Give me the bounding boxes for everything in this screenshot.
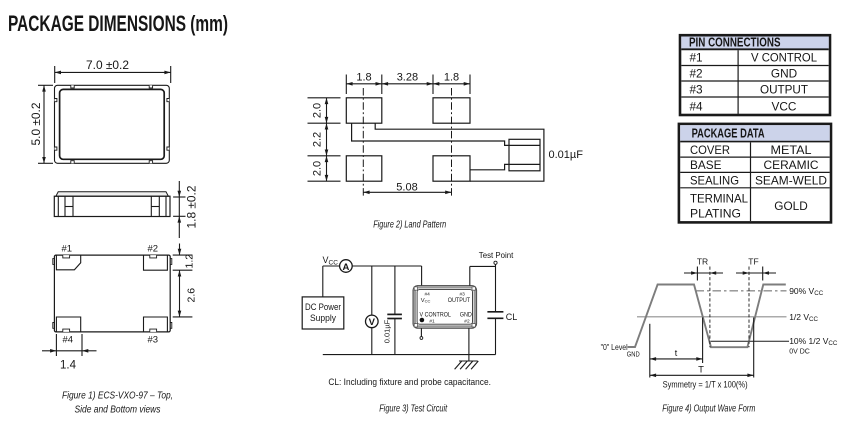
- svg-text:CL: CL: [506, 312, 518, 322]
- svg-text:2.2: 2.2: [312, 132, 324, 147]
- dim 7.0 line: [55, 71, 171, 73]
- side bump pad3: [170, 323, 172, 329]
- T right tick: [753, 318, 755, 378]
- bypass capacitor body: [509, 139, 540, 171]
- centerline left pads: [362, 88, 364, 197]
- svg-text:A: A: [342, 262, 349, 273]
- wire capacitor to bottom: [394, 319, 396, 355]
- package data header separator: [680, 141, 830, 143]
- svg-text:TF: TF: [748, 257, 758, 267]
- svg-text:BASE: BASE: [690, 158, 722, 172]
- left extension lines: [308, 97, 341, 99]
- pad #4: [56, 317, 80, 332]
- half Vcc reference line: [637, 316, 787, 318]
- wire junction to capacitor: [394, 266, 396, 314]
- svg-text:10% 1/2 VCC: 10% 1/2 VCC: [789, 336, 838, 347]
- TF dashed vertical: [748, 267, 750, 348]
- trace outer loop: [375, 123, 544, 181]
- TF tick solid: [762, 267, 764, 281]
- package data column divider: [750, 142, 752, 221]
- svg-text:5.0 ±0.2: 5.0 ±0.2: [31, 103, 43, 146]
- dim 5.0 extension tick top: [38, 84, 53, 86]
- svg-text:V CONTROL: V CONTROL: [751, 51, 817, 65]
- svg-text:GND: GND: [627, 352, 640, 359]
- DC power supply box: [302, 297, 344, 329]
- svg-text:METAL: METAL: [771, 143, 812, 157]
- svg-text:DC Power: DC Power: [305, 302, 341, 312]
- 90% Vcc dash-dot line: [696, 290, 787, 292]
- svg-text:GND: GND: [771, 66, 797, 80]
- wire CL to bottom: [495, 318, 497, 354]
- pin connections header separator: [681, 48, 828, 50]
- dim 5.0 line: [43, 85, 45, 163]
- side bump pad2: [170, 259, 172, 265]
- svg-text:Test Point: Test Point: [479, 250, 514, 260]
- trace inner to cap top: [352, 123, 509, 145]
- svg-text:Side and Bottom views: Side and Bottom views: [75, 404, 162, 416]
- side bump pad4: [53, 323, 55, 329]
- dim line top: [346, 83, 470, 85]
- package data header background: [680, 125, 830, 141]
- dim 1.4 line and arrows: [56, 350, 82, 352]
- output wire to test point: [470, 265, 496, 267]
- svg-text:#2: #2: [690, 66, 703, 80]
- svg-text:Figure 3) Test Circuit: Figure 3) Test Circuit: [379, 403, 448, 415]
- dim 1.4 tick right: [81, 334, 83, 356]
- svg-text:#2: #2: [464, 318, 470, 324]
- voltmeter V: [366, 315, 379, 328]
- dim 1.2 upper arrow: [179, 244, 181, 256]
- side view right terminal lines: [165, 196, 167, 216]
- svg-text:CL: Including fixture and prob: CL: Including fixture and probe capacita…: [328, 377, 491, 388]
- svg-text:V: V: [369, 317, 376, 328]
- 10% line: [711, 340, 789, 342]
- side bump pad1: [53, 259, 55, 265]
- ground symbol: [459, 360, 478, 362]
- svg-text:VCC: VCC: [772, 100, 797, 114]
- svg-text:7.0 ±0.2: 7.0 ±0.2: [86, 60, 129, 72]
- svg-text:#4: #4: [63, 335, 74, 346]
- svg-text:V CONTROL: V CONTROL: [420, 311, 452, 318]
- top edge castellation notch left: [71, 85, 74, 88]
- svg-text:VCC: VCC: [421, 298, 431, 304]
- wire Vcc to ammeter: [323, 265, 340, 267]
- svg-text:Supply: Supply: [310, 313, 336, 323]
- gnd pin wire down: [468, 328, 470, 361]
- svg-text:Figure 2) Land Pattern: Figure 2) Land Pattern: [373, 219, 446, 231]
- svg-text:SEAM-WELD: SEAM-WELD: [755, 174, 827, 188]
- svg-text:PACKAGE DIMENSIONS (mm): PACKAGE DIMENSIONS (mm): [8, 11, 228, 36]
- capacitor 0.01uF plates: [387, 313, 402, 315]
- svg-text:#2: #2: [148, 244, 159, 255]
- svg-text:TERMINAL: TERMINAL: [690, 192, 748, 206]
- package top view lid: [60, 89, 165, 159]
- svg-text:GND: GND: [460, 311, 473, 318]
- dim extension verticals top: [345, 75, 347, 95]
- dim 5.08 line: [363, 191, 451, 193]
- dim 7.0 extension line right: [170, 66, 172, 83]
- left edge notch upper: [55, 99, 57, 102]
- svg-text:PLATING: PLATING: [690, 207, 741, 221]
- svg-text:PIN CONNECTIONS: PIN CONNECTIONS: [689, 34, 781, 49]
- TR dashed vertical: [709, 267, 711, 348]
- svg-text:T: T: [698, 365, 704, 376]
- dim 1.8 tick top: [173, 196, 185, 198]
- svg-text:VCC: VCC: [323, 255, 339, 267]
- pin connections table outer: [680, 35, 830, 115]
- pin connections row lines: [681, 65, 828, 67]
- wire down to DC supply: [322, 266, 324, 297]
- svg-text:1.8: 1.8: [444, 72, 459, 84]
- svg-text:SEALING: SEALING: [690, 174, 739, 188]
- svg-text:1.8 ±0.2: 1.8 ±0.2: [187, 186, 199, 229]
- bottom view body: [54, 255, 170, 332]
- svg-text:#1: #1: [429, 318, 435, 324]
- svg-text:1.8: 1.8: [356, 72, 371, 84]
- castellation notch below pad 3: [150, 329, 157, 332]
- dim 1.4 tick left: [55, 334, 57, 356]
- castellation notch below pad 4: [63, 329, 70, 332]
- svg-text:1.4: 1.4: [60, 360, 77, 372]
- test point terminal: [494, 261, 497, 264]
- TF dim line: [736, 272, 776, 274]
- pad #2: [144, 255, 168, 270]
- bypass capacitor top electrode: [509, 144, 540, 146]
- svg-text:2.0: 2.0: [312, 161, 324, 176]
- svg-text:Figure 4) Output Wave Form: Figure 4) Output Wave Form: [662, 403, 755, 415]
- dim 1.8 tick bottom: [173, 215, 185, 217]
- trace pad to cap bottom: [470, 164, 509, 169]
- svg-text:5.08: 5.08: [396, 181, 417, 193]
- svg-text:1.2: 1.2: [184, 254, 196, 269]
- castellation notch above pad 2: [150, 255, 157, 258]
- svg-text:OUTPUT: OUTPUT: [448, 297, 470, 304]
- dim 2.6 double arrow: [179, 270, 181, 317]
- output waveform: [628, 285, 786, 348]
- svg-text:3.28: 3.28: [397, 72, 418, 84]
- TR tick solid: [696, 267, 698, 281]
- land pad top-left: [346, 98, 382, 123]
- svg-text:Symmetry = 1/T x 100(%): Symmetry = 1/T x 100(%): [663, 379, 748, 390]
- svg-text:#4: #4: [425, 292, 431, 298]
- pad #3: [144, 317, 168, 332]
- svg-text:90% VCC: 90% VCC: [789, 286, 824, 297]
- land pad bottom-left: [346, 156, 382, 181]
- svg-text:"0" Level: "0" Level: [601, 342, 628, 352]
- svg-text:0V DC: 0V DC: [789, 349, 810, 356]
- side view body: [54, 196, 170, 216]
- svg-text:0.01µF: 0.01µF: [383, 319, 392, 343]
- t middle tick: [702, 318, 704, 364]
- svg-text:Figure 1) ECS-VXO-97 – Top,: Figure 1) ECS-VXO-97 – Top,: [62, 390, 173, 402]
- svg-text:#4: #4: [690, 100, 704, 114]
- svg-text:OUTPUT: OUTPUT: [760, 82, 808, 96]
- package data row lines: [680, 156, 830, 158]
- side view left terminal lines: [57, 196, 59, 216]
- svg-text:2.6: 2.6: [186, 288, 198, 303]
- svg-text:#3: #3: [148, 335, 159, 346]
- top edge castellation notch right: [149, 85, 152, 88]
- T dim line: [650, 374, 754, 376]
- right edge notch upper: [167, 99, 169, 102]
- svg-text:1/2 VCC: 1/2 VCC: [789, 312, 818, 323]
- dim 5.0 extension tick bottom: [38, 162, 53, 164]
- land pad top-right: [433, 98, 470, 123]
- land pad bottom-right: [433, 156, 470, 181]
- svg-text:t: t: [675, 348, 678, 358]
- wire down to package: [421, 266, 423, 286]
- left dim line: [326, 98, 328, 181]
- bottom edge castellation notch left: [71, 161, 74, 164]
- CL capacitor plates: [487, 311, 503, 313]
- wire ammeter to package vcc pin: [352, 265, 421, 267]
- svg-text:PACKAGE DATA: PACKAGE DATA: [692, 126, 765, 141]
- bypass capacitor bottom electrode: [509, 163, 540, 165]
- centerline right pads: [451, 88, 453, 197]
- svg-text:2.0: 2.0: [312, 103, 324, 118]
- dim 7.0 extension line left: [54, 66, 56, 83]
- package data table outer: [679, 124, 831, 222]
- output pin wire up: [469, 266, 471, 285]
- svg-text:CERAMIC: CERAMIC: [764, 158, 819, 172]
- package top view outer body: [55, 85, 170, 163]
- svg-text:COVER: COVER: [690, 143, 730, 157]
- castellation notch above pad 1: [63, 255, 70, 258]
- right edge notch lower: [167, 147, 169, 150]
- oscillator pin corner notches: [414, 287, 417, 290]
- svg-text:GOLD: GOLD: [774, 199, 807, 213]
- t/T left tick: [649, 324, 651, 378]
- TR dim line: [684, 272, 723, 274]
- oscillator package outline: [413, 286, 477, 329]
- bottom edge castellation notch right: [149, 161, 152, 164]
- bottom wire: [323, 354, 496, 356]
- t dim line: [650, 358, 703, 360]
- svg-text:TR: TR: [697, 257, 708, 267]
- svg-text:#1: #1: [62, 244, 73, 255]
- dim 1.2/2.6 ticks: [173, 254, 193, 256]
- svg-text:#3: #3: [690, 82, 704, 96]
- dim 1.8 line with arrows: [178, 181, 180, 216]
- svg-text:#1: #1: [690, 51, 703, 65]
- wire voltmeter to bottom: [371, 328, 373, 355]
- svg-text:0.01µF: 0.01µF: [549, 149, 584, 161]
- pad #1 with chamfer: [56, 255, 80, 270]
- wire junction to voltmeter: [371, 266, 373, 315]
- v control stub and terminal: [420, 328, 422, 336]
- pin connections column divider: [737, 50, 739, 114]
- left edge notch lower: [55, 147, 57, 150]
- side view lid: [56, 192, 168, 196]
- pin connections header background: [681, 37, 828, 49]
- ammeter A: [340, 260, 353, 273]
